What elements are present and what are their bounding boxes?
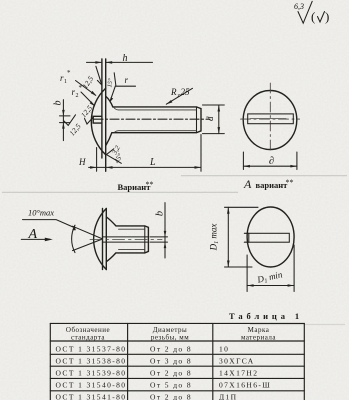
svg-text:r: r <box>125 75 129 85</box>
svg-text:b: b <box>154 211 165 216</box>
svg-text:A: A <box>243 177 252 191</box>
svg-text:От 2 до 8: От 2 до 8 <box>150 392 192 400</box>
svg-text:ОСТ 1 31538-80: ОСТ 1 31538-80 <box>56 357 127 366</box>
svg-text:30ХГСА: 30ХГСА <box>219 357 255 366</box>
svg-text:h: h <box>123 53 128 64</box>
svg-text:ОСТ 1 31539-80: ОСТ 1 31539-80 <box>56 369 127 378</box>
svg-text:*: * <box>79 84 83 92</box>
svg-text:От 5 до 8: От 5 до 8 <box>150 381 192 390</box>
svg-text:От 3 до 8: От 3 до 8 <box>150 357 192 366</box>
svg-text:Д1П: Д1П <box>219 392 237 400</box>
svg-text:6,3: 6,3 <box>294 2 304 11</box>
svg-text:стандарта: стандарта <box>71 334 105 342</box>
svg-text:H: H <box>78 157 86 167</box>
svg-text:07Х16Н6-Ш: 07Х16Н6-Ш <box>219 381 271 390</box>
svg-text:Таблица 1: Таблица 1 <box>229 311 303 321</box>
svg-text:): ) <box>325 9 329 24</box>
svg-text:От 2 до 8: От 2 до 8 <box>150 369 192 378</box>
svg-text:**: ** <box>286 178 294 187</box>
svg-text:d: d <box>205 116 215 121</box>
svg-text:ОСТ 1 31540-80: ОСТ 1 31540-80 <box>56 381 127 390</box>
svg-text:25: 25 <box>181 87 191 97</box>
svg-text:∂: ∂ <box>269 156 274 167</box>
svg-text:*: * <box>67 69 71 77</box>
svg-text:2: 2 <box>76 93 79 99</box>
svg-text:b: b <box>52 101 63 106</box>
svg-text:резьбы, мм: резьбы, мм <box>151 334 189 342</box>
svg-text:(: ( <box>311 9 315 24</box>
svg-text:**: ** <box>146 180 154 189</box>
svg-text:10: 10 <box>219 345 229 354</box>
svg-text:10°max: 10°max <box>28 208 54 218</box>
svg-text:ОСТ 1 31541-80: ОСТ 1 31541-80 <box>56 392 127 400</box>
svg-text:D1 max: D1 max <box>209 224 221 252</box>
svg-text:R: R <box>170 87 177 97</box>
svg-text:15°: 15° <box>106 78 114 88</box>
svg-text:14Х17Н2: 14Х17Н2 <box>219 369 258 378</box>
svg-text:ОСТ 1 31537-80: ОСТ 1 31537-80 <box>56 345 127 354</box>
svg-text:вариант: вариант <box>256 180 289 190</box>
svg-text:От 2 до 8: От 2 до 8 <box>150 345 192 354</box>
svg-text:материала: материала <box>241 334 276 342</box>
svg-text:A: A <box>28 227 38 242</box>
svg-text:1: 1 <box>64 79 67 85</box>
svg-text:L: L <box>149 157 156 168</box>
